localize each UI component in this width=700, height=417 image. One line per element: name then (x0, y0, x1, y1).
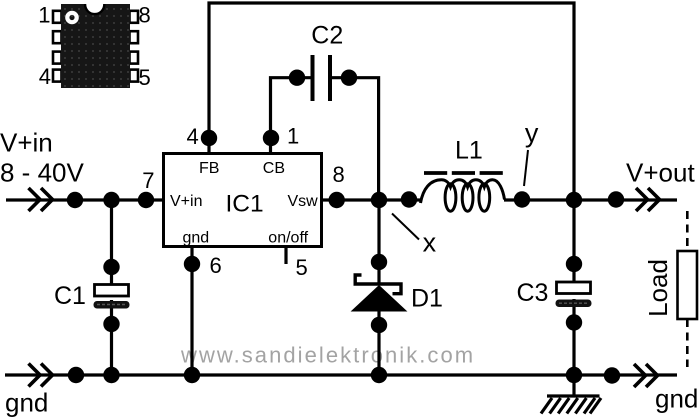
svg-text:gnd: gnd (655, 384, 698, 414)
svg-text:Load: Load (643, 259, 673, 317)
svg-text:V+in: V+in (170, 193, 202, 210)
svg-text:IC1: IC1 (226, 190, 264, 217)
svg-text:CB: CB (263, 160, 285, 177)
svg-text:1: 1 (38, 3, 50, 28)
svg-text:gnd: gnd (5, 388, 48, 417)
svg-text:7: 7 (142, 168, 154, 193)
svg-text:4: 4 (187, 124, 199, 149)
svg-text:8: 8 (139, 3, 151, 28)
svg-text:V+in: V+in (0, 128, 53, 158)
svg-text:y: y (525, 118, 539, 148)
svg-text:x: x (423, 227, 437, 257)
svg-text:5: 5 (139, 65, 151, 90)
svg-text:on/off: on/off (268, 230, 308, 247)
svg-text:1: 1 (287, 124, 299, 149)
svg-text:6: 6 (210, 253, 222, 278)
svg-text:FB: FB (199, 160, 219, 177)
svg-text:C2: C2 (311, 22, 343, 50)
svg-text:8 - 40V: 8 - 40V (0, 157, 84, 187)
svg-text:5: 5 (296, 255, 308, 280)
svg-text:V+out: V+out (626, 157, 695, 187)
svg-text:D1: D1 (411, 285, 443, 313)
svg-text:www.sandielektronik.com: www.sandielektronik.com (180, 343, 475, 368)
svg-text:gnd: gnd (183, 230, 210, 247)
svg-text:C3: C3 (517, 279, 549, 307)
svg-text:Vsw: Vsw (288, 193, 319, 210)
svg-text:4: 4 (39, 64, 51, 89)
svg-text:L1: L1 (455, 137, 483, 165)
svg-text:8: 8 (333, 162, 345, 187)
svg-text:C1: C1 (54, 282, 86, 310)
